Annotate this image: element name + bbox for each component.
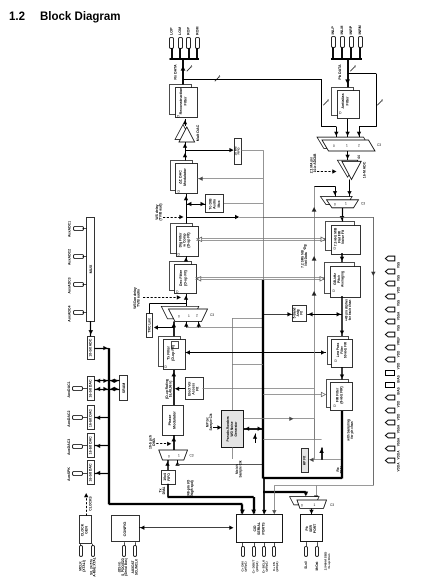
- svg-text:(TV/B aud): (TV/B aud): [159, 203, 163, 220]
- svg-text:(D-up Flt): (D-up Flt): [183, 270, 187, 286]
- svg-text:(p0/p1): (p0/p1): [275, 562, 279, 572]
- mux record input selector: [317, 137, 381, 151]
- svg-text:Pb DATA: Pb DATA: [338, 64, 342, 80]
- wire trunk stub to serial: [262, 479, 267, 515]
- block Digital Filter: [171, 224, 199, 257]
- svg-text:VDD: VDD: [397, 400, 401, 407]
- svg-text:(D-up Flt): (D-up Flt): [171, 345, 175, 361]
- svg-text:BIAS: BIAS: [397, 375, 401, 383]
- wire DS to Digital Filter: [184, 194, 188, 224]
- wire chain to To-DIB box: [186, 202, 206, 206]
- wire trunk to DS modulator: [198, 177, 264, 181]
- wire center trunk gray: [263, 150, 265, 280]
- svg-text:AuxADC3: AuxADC3: [68, 277, 72, 293]
- pin DIN: [240, 543, 247, 572]
- svg-text:CLOCKS: CLOCKS: [89, 496, 93, 511]
- svg-text:C3: C3: [377, 143, 381, 147]
- block Pseudo-Random Generator: [222, 411, 244, 448]
- pin INRM: [358, 25, 363, 47]
- wire top-left pin bus bar: [170, 48, 200, 59]
- svg-text:16-bit DAC: 16-bit DAC: [89, 379, 93, 397]
- pin BCLK: [262, 543, 269, 573]
- svg-text:VSS: VSS: [397, 300, 401, 306]
- wire TxFilter to LowPass: [186, 350, 327, 354]
- svg-text:AuxDAC1: AuxDAC1: [67, 381, 71, 397]
- pin MCLK: [79, 544, 86, 572]
- wire to Rx word FIFO: [185, 148, 234, 152]
- pin AuxADC2: [68, 249, 87, 265]
- pin VDD 8: [385, 345, 400, 357]
- svg-text:Filter: Filter: [183, 96, 187, 106]
- svg-text:FIFO: FIFO: [237, 147, 241, 155]
- svg-text:4: 4: [191, 65, 193, 69]
- svg-text:AuxADC4: AuxADC4: [68, 306, 72, 322]
- wire TRC limiter feed: [149, 304, 186, 314]
- wire trunk to EQ: [263, 312, 293, 316]
- svg-text:Sample Clk: Sample Clk: [238, 460, 242, 477]
- svg-text:Rx DATA: Rx DATA: [174, 64, 178, 80]
- wire dashed into ADC amp: [310, 157, 337, 174]
- label 44: [357, 155, 361, 159]
- wire FIFO to busA: [167, 484, 169, 497]
- wire PRG right gray: [244, 417, 315, 440]
- pin VSSA 14: [385, 420, 400, 433]
- svg-text:C3: C3: [330, 503, 334, 507]
- wire bus to SRAM: [109, 379, 120, 392]
- wire TxFilter to PhaseMod: [171, 370, 176, 405]
- pin XTALO: [89, 544, 96, 577]
- svg-text:2: 2: [358, 144, 360, 148]
- svg-text:VDD: VDD: [397, 286, 401, 293]
- svg-text:VSS: VSS: [397, 275, 401, 281]
- pin VSS 1: [385, 256, 400, 268]
- svg-text:GEN: GEN: [85, 526, 89, 534]
- svg-text:INRM: INRM: [358, 25, 362, 34]
- svg-text:AuxADC2: AuxADC2: [68, 249, 72, 265]
- svg-text:(D-up Flt): (D-up Flt): [187, 232, 191, 247]
- svg-text:Φg: Φg: [303, 244, 307, 249]
- amp 16-M ADC triangles: [337, 160, 366, 179]
- block Low Pass Filter: [328, 337, 353, 368]
- wire dashed WS delay into chain: [155, 203, 184, 220]
- pin VDD 13: [385, 408, 400, 420]
- wire DAC amp chain: [183, 142, 187, 160]
- svg-text:VSS: VSS: [397, 325, 401, 331]
- svg-text:A-MHz XTAL: A-MHz XTAL: [93, 557, 97, 576]
- svg-text:(p0/p1): (p0/p1): [265, 562, 269, 572]
- wire chain right y217: [186, 215, 263, 219]
- svg-text:SLv0: SLv0: [304, 561, 308, 569]
- pin SCL: [131, 542, 138, 575]
- wire bus to DAC4: [95, 471, 109, 475]
- bus dec filter to SRC2: [195, 277, 325, 281]
- label Tx DMA: [159, 486, 167, 494]
- block SRC filter 2: [325, 263, 361, 298]
- svg-text:ROM: ROM: [195, 26, 199, 35]
- svg-text:VDD: VDD: [397, 413, 401, 420]
- pin INRP: [349, 25, 354, 47]
- svg-text:C3: C3: [361, 202, 365, 206]
- block TRC Lmt: [147, 314, 153, 338]
- svg-text:AB: AB: [313, 153, 317, 158]
- svg-text:16-bit DAC: 16-bit DAC: [89, 436, 93, 454]
- svg-text:16-bit DAC: 16-bit DAC: [89, 409, 93, 427]
- mux tx selector: [159, 450, 194, 460]
- block 16-bit DAC AuxDAC2: [88, 406, 95, 430]
- wire bypass y217 long: [263, 217, 376, 486]
- svg-text:44: 44: [357, 155, 361, 159]
- block aux input MUX: [87, 218, 95, 322]
- block DS DAC Modulator: [171, 161, 198, 194]
- svg-text:TRC Lmt: TRC Lmt: [148, 318, 152, 333]
- wire to HP filter: [263, 440, 341, 463]
- block Pb Serial Port: [301, 515, 323, 542]
- mux output selector: [290, 497, 335, 509]
- label AB: [313, 153, 317, 158]
- wire mux2 to SRC1: [340, 208, 345, 222]
- bus digital filter to SRC1: [196, 237, 326, 241]
- pin ROM: [195, 26, 199, 48]
- svg-text:0: 0: [168, 455, 170, 459]
- svg-text:VSSA: VSSA: [397, 437, 401, 446]
- wire mux to TRC Lmt: [154, 325, 174, 329]
- svg-text:DMA: DMA: [162, 486, 166, 494]
- pin AuxADC1: [68, 221, 87, 237]
- svg-text:1: 1: [188, 314, 190, 318]
- pin VDD 3: [385, 281, 400, 293]
- svg-text:Sample Clk: Sample Clk: [209, 413, 213, 430]
- wire FIFO to mux2: [165, 460, 169, 470]
- block Rx word FIFO: [233, 139, 241, 165]
- wire FIR down to bottom: [341, 411, 343, 479]
- pin VSS 4: [385, 294, 400, 306]
- wire PRG to trunk thick: [244, 427, 263, 431]
- block HP Sub Filter: [302, 449, 309, 473]
- svg-text:high spd): high spd): [190, 480, 194, 495]
- svg-text:VDD: VDD: [397, 362, 401, 369]
- svg-text:ROP: ROP: [187, 27, 191, 35]
- wire LowPass to FIR: [340, 367, 344, 380]
- wire mux1 to Tx Filter: [171, 322, 176, 337]
- svg-text:LOM: LOM: [178, 27, 182, 35]
- svg-text:Not Data: Not Data: [304, 252, 308, 266]
- pin AuxADC3: [68, 277, 87, 293]
- svg-text:TV/B audio: TV/B audio: [137, 289, 141, 307]
- svg-text:PORTS: PORTS: [261, 522, 265, 535]
- pin VREF 7: [385, 332, 400, 345]
- wire ElectVol to chain: [175, 387, 185, 391]
- wire gray path to out mux: [272, 486, 373, 515]
- label d-up rating: [165, 379, 173, 399]
- svg-text:MUX: MUX: [88, 264, 93, 273]
- pin INLP: [331, 26, 336, 48]
- wire recon to DAC amp: [183, 119, 187, 126]
- wire busA: [168, 497, 257, 514]
- svg-text:1: 1: [314, 503, 316, 507]
- block Tx FIFO: [162, 471, 176, 485]
- svg-text:Phase: Phase: [168, 415, 172, 426]
- svg-text:16,48,96 k): 16,48,96 k): [168, 381, 172, 398]
- wire control to serial ports: [139, 526, 234, 530]
- block Tx Filter: [159, 337, 186, 370]
- wire DecFilter to mux1: [184, 294, 188, 306]
- label phi glyphs: [303, 244, 307, 249]
- svg-text:2: 2: [196, 314, 198, 318]
- block Serial Ports: [237, 515, 283, 543]
- label sample clock 2: [235, 460, 242, 477]
- svg-text:60-kHz FIR: 60-kHz FIR: [344, 341, 348, 358]
- svg-text:0: 0: [333, 144, 335, 148]
- svg-text:Mux: Mux: [217, 200, 221, 207]
- pin SDA: [118, 542, 129, 576]
- wire CLOCKS dashed: [84, 493, 93, 516]
- svg-text:1: 1: [346, 144, 348, 148]
- svg-text:DMA: DMA: [340, 465, 344, 473]
- svg-text:HP Flt: HP Flt: [303, 455, 307, 465]
- wire PhaseMod in: [171, 435, 176, 450]
- mux record selector 2: [320, 197, 365, 208]
- svg-text:AuxDAC3: AuxDAC3: [67, 439, 71, 455]
- svg-text:VSSA: VSSA: [397, 424, 401, 433]
- pin BIAS 11: [386, 383, 401, 395]
- wire mux2 right input: [175, 460, 263, 466]
- label 7.2 data: [301, 250, 309, 268]
- wire bottom thick to out mux: [263, 492, 308, 497]
- pin DOUT: [252, 543, 259, 573]
- wire thin trunk x232: [232, 318, 234, 410]
- block Elect Vol Access: [186, 378, 204, 400]
- pin AuxDAC3: [67, 439, 87, 455]
- wire bus to DAC2: [95, 416, 109, 420]
- svg-text:VSS: VSS: [397, 262, 401, 268]
- svg-text:FIFO: FIFO: [167, 473, 171, 481]
- wire DigFilter to DecFilter: [184, 256, 188, 261]
- block 16-bit DAC AuxDAC1: [88, 377, 95, 401]
- svg-text:CONFIG: CONFIG: [123, 522, 127, 537]
- svg-text:Antialias: Antialias: [341, 93, 345, 108]
- svg-text:1: 1: [178, 454, 180, 458]
- svg-text:C3: C3: [210, 313, 214, 317]
- pin VDD 12: [385, 395, 400, 407]
- pin VSSA 15: [385, 433, 400, 446]
- wire y364 segment: [232, 364, 263, 366]
- pin VSS 2: [385, 269, 400, 281]
- svg-text:0: 0: [334, 203, 336, 207]
- wire sample clock into PRG: [206, 413, 222, 430]
- wire left chain top: [174, 59, 193, 85]
- wire PRG bottom: [232, 447, 234, 459]
- block Dec Filter: [170, 262, 197, 295]
- pin VSSA 5: [385, 307, 400, 320]
- svg-text:hi-sp Drvn: hi-sp Drvn: [327, 553, 331, 568]
- svg-text:DMA: DMA: [152, 438, 156, 446]
- svg-text:16-bit DAC: 16-bit DAC: [89, 463, 93, 481]
- svg-text:AuxSPK: AuxSPK: [67, 467, 71, 481]
- wire dashed into chain y297: [133, 287, 181, 309]
- svg-text:4: 4: [219, 75, 221, 79]
- svg-text:1: 1: [345, 202, 347, 206]
- wire x255 stub: [253, 434, 257, 444]
- svg-text:4: 4: [327, 99, 329, 103]
- wire feedback into mux2: [314, 186, 337, 196]
- block Reconstruction Filter: [170, 85, 198, 119]
- svg-text:ΔΣ DAC: ΔΣ DAC: [179, 170, 183, 184]
- svg-text:10-bit ADC: 10-bit ADC: [89, 338, 93, 356]
- block Phase Modulator: [163, 406, 184, 436]
- pin VDDA 16: [385, 446, 400, 459]
- svg-text:VDD: VDD: [397, 350, 401, 357]
- pin SLv0: [304, 542, 308, 569]
- amp Mult DAC triangles: [175, 124, 200, 142]
- wire center trunk thick: [262, 280, 264, 479]
- pin AuxADC4: [68, 306, 87, 322]
- label sampling: [347, 419, 355, 441]
- svg-text:Averaging: Averaging: [341, 271, 345, 287]
- svg-text:Modulator: Modulator: [183, 168, 187, 186]
- wire To-DIB to trunk: [224, 203, 263, 205]
- svg-text:(p0/p1): (p0/p1): [244, 562, 248, 572]
- svg-text:LOP: LOP: [170, 27, 174, 35]
- svg-text:AuxDAC2: AuxDAC2: [67, 411, 71, 427]
- svg-text:for ph chan: for ph chan: [350, 421, 354, 438]
- label output rate: [324, 551, 331, 570]
- svg-text:(p0/p1): (p0/p1): [255, 562, 259, 572]
- svg-text:VDDA: VDDA: [397, 450, 401, 460]
- pin BIAS 10: [386, 371, 401, 383]
- pin AuxDAC2: [67, 411, 87, 427]
- block 16-bit DAC AuxSPK: [88, 461, 95, 485]
- wire dashed DMA: [149, 435, 172, 449]
- block 10-bit ADC: [88, 337, 95, 360]
- wire loopback y79: [183, 75, 336, 127]
- svg-text:AuxADC1: AuxADC1: [68, 221, 72, 237]
- block Control Interface: [112, 516, 140, 542]
- pin VDD 9: [385, 357, 400, 369]
- svg-text:MrDat: MrDat: [315, 561, 319, 571]
- pin ROP: [187, 27, 191, 49]
- svg-text:SCL/MCLK: SCL/MCLK: [134, 558, 138, 575]
- wire trunk bottom to right: [263, 477, 342, 479]
- mux playback selector: [161, 306, 214, 321]
- svg-text:Generator: Generator: [234, 421, 238, 437]
- svg-text:(Serial Bus): (Serial Bus): [124, 558, 128, 576]
- pin FS: [272, 543, 279, 572]
- pin AuxDAC1: [67, 381, 87, 397]
- wire FIFO to trunk: [241, 150, 263, 152]
- block FIR Filter: [327, 380, 353, 411]
- wire SRC1 to SRC2: [340, 253, 344, 262]
- svg-text:0: 0: [301, 504, 303, 508]
- wire busB arrow into serial ports: [240, 504, 245, 514]
- wire bus to DAC1: [95, 379, 109, 392]
- pin AuxSPK: [67, 467, 87, 481]
- pin MrDat: [315, 542, 319, 570]
- svg-text:C3: C3: [190, 454, 194, 458]
- svg-text:16-M ADC: 16-M ADC: [363, 161, 367, 178]
- pin INLM: [340, 26, 345, 48]
- pin VSS 6: [385, 319, 400, 331]
- wire SRC2 to LowPass: [340, 296, 344, 336]
- svg-text:INLP: INLP: [331, 26, 335, 35]
- svg-text:Mult DAC: Mult DAC: [196, 124, 200, 141]
- wire feedback vertical: [312, 186, 317, 460]
- svg-text:1.2: 1.2: [9, 11, 25, 23]
- wire right bypass: [348, 74, 383, 127]
- wire trunk to FIR filter: [263, 392, 326, 396]
- wire ADC to left bus: [95, 346, 109, 350]
- svg-text:(8-kHz FIR): (8-kHz FIR): [340, 386, 344, 403]
- wire top-right pin bus bar: [331, 48, 362, 60]
- svg-text:BIAS: BIAS: [397, 387, 401, 395]
- block SRAM: [120, 376, 128, 401]
- block 5-band EQ: [293, 306, 307, 322]
- wire EQ to chain: [307, 312, 342, 316]
- wire mux to ADC amp: [345, 151, 349, 160]
- svg-text:10-b ADC: 10-b ADC: [313, 157, 317, 172]
- wire out mux to port: [309, 509, 313, 515]
- svg-text:Reconstruction: Reconstruction: [179, 88, 183, 115]
- wire ADC amp to mux2: [347, 180, 351, 197]
- svg-text:4: 4: [354, 65, 356, 69]
- wire left data bus: [109, 348, 243, 504]
- block SRC filter 1: [326, 222, 361, 255]
- svg-text:VDDA: VDDA: [397, 462, 401, 472]
- wire right chain top: [338, 59, 356, 87]
- svg-text:Filter: Filter: [345, 96, 349, 106]
- wire antialias to mux: [334, 119, 361, 137]
- svg-text:VSSA: VSSA: [397, 311, 401, 320]
- wire bus to DAC3: [95, 444, 109, 448]
- svg-text:(XTALI): (XTALI): [82, 560, 86, 571]
- svg-text:0: 0: [178, 315, 180, 319]
- svg-text:4: 4: [381, 99, 383, 103]
- block 16-bit DAC AuxDAC3: [88, 434, 95, 458]
- svg-text:PORT: PORT: [313, 523, 317, 533]
- block To DIB Audio Mux: [206, 195, 224, 213]
- svg-text:Block Diagram: Block Diagram: [40, 11, 121, 23]
- block Clock Gen: [80, 516, 92, 544]
- label 48-pin IO: [187, 479, 195, 496]
- svg-text:VREF: VREF: [397, 337, 401, 345]
- svg-text:INLM: INLM: [340, 26, 344, 35]
- label dither: [345, 299, 353, 321]
- pin VDDA 17: [385, 458, 400, 471]
- wire MUX to ADC: [88, 321, 93, 336]
- pin LOM: [178, 27, 183, 49]
- svg-text:Modulator: Modulator: [172, 411, 176, 429]
- pin LOP: [170, 27, 174, 49]
- svg-text:INRP: INRP: [349, 25, 353, 34]
- svg-text:for each chan: for each chan: [348, 300, 352, 321]
- svg-text:SRAM: SRAM: [122, 383, 126, 393]
- label Rx DMA: [336, 465, 344, 473]
- title heading: [9, 11, 121, 23]
- wire mux1 bottom feeds: [184, 319, 263, 328]
- wire ElectVol to trunk: [203, 388, 315, 390]
- block Antialias Filter: [332, 88, 360, 119]
- svg-text:Noise Flt: Noise Flt: [341, 229, 345, 244]
